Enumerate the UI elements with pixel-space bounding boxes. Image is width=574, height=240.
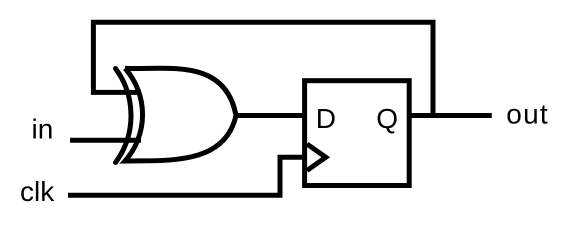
flip-flop U2 box xyxy=(305,81,410,186)
wire feedback loop: from XOR top input stub, up, across top, down to Q output xyxy=(93,22,433,115)
xor-gate U1 body xyxy=(125,68,236,161)
svg-text:Q: Q xyxy=(376,103,398,134)
wire xor output to D input xyxy=(236,113,304,118)
wire in lead xyxy=(70,138,141,143)
svg-text:out: out xyxy=(506,99,549,130)
svg-text:D: D xyxy=(316,103,336,134)
svg-text:in: in xyxy=(32,114,54,145)
wire Q output to out xyxy=(409,113,492,118)
flip-flop clock edge triangle xyxy=(307,144,326,171)
wire clk lead with step up to flip-flop clock pin xyxy=(68,157,305,195)
svg-text:clk: clk xyxy=(20,176,55,207)
xor-gate U1 extra input arc xyxy=(116,69,132,163)
